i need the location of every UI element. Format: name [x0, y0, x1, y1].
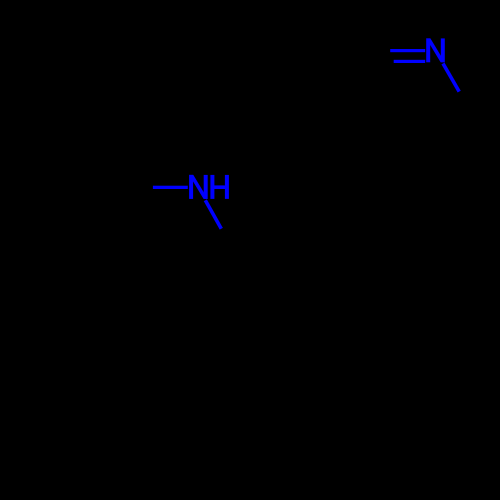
amine label NH (middle left): letter N [189, 175, 208, 199]
pyridine nitrogen label N (top right) [426, 38, 445, 62]
bond C-NH horizontal (blue half, left of NH) [153, 186, 188, 189]
bond N-C down-right from pyridine N (blue half) [443, 64, 459, 92]
double bond C=N (blue half), main line [390, 49, 425, 52]
bond NH-C down-right (blue half, below NH) [205, 200, 221, 229]
amine label NH: letter H [210, 175, 229, 199]
double bond C=N (blue half), inner line [394, 60, 426, 63]
